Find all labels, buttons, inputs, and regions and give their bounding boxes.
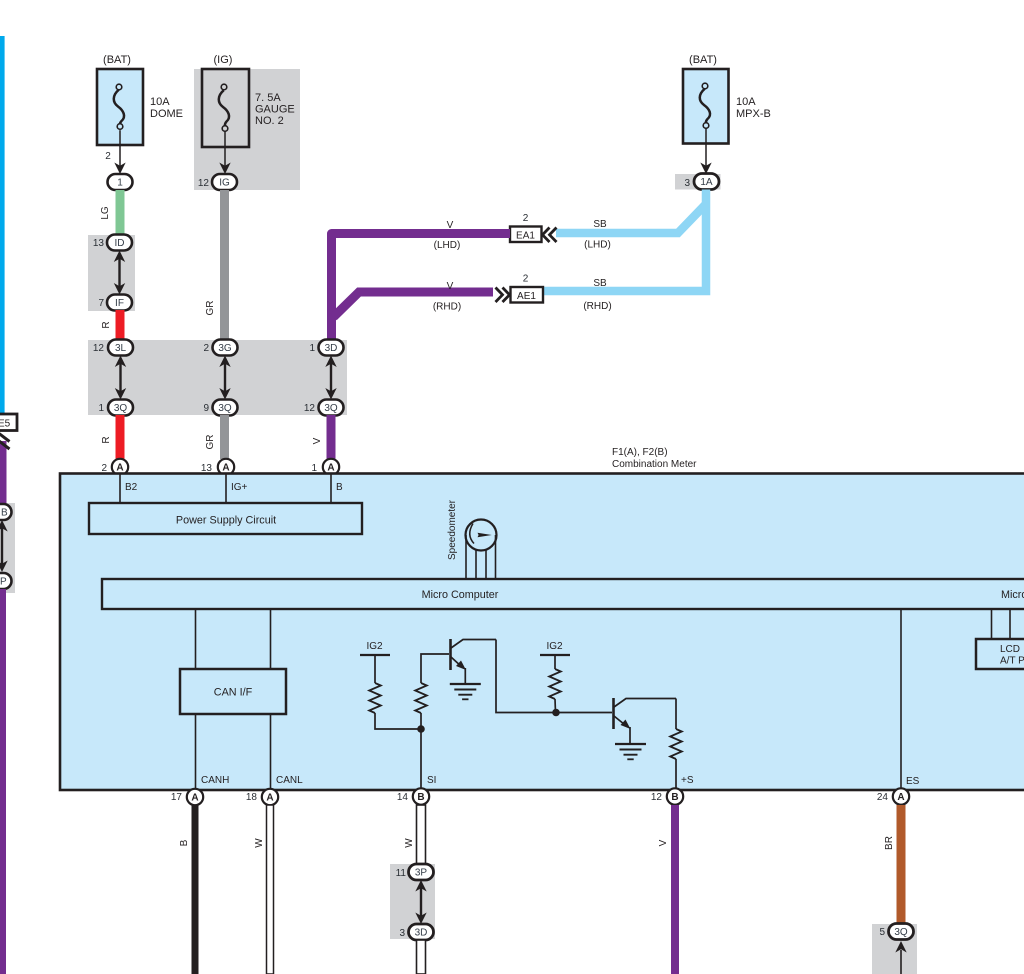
svg-text:3Q: 3Q <box>114 403 128 414</box>
resistor R1 <box>369 683 381 713</box>
wire R3 to junction <box>554 699 557 713</box>
svg-text:CANH: CANH <box>201 775 229 786</box>
wire to LCD box 1 <box>991 609 993 639</box>
wire SB vertical from 1A <box>543 190 706 292</box>
svg-text:A: A <box>327 463 334 474</box>
svg-text:3P: 3P <box>415 868 428 879</box>
svg-text:B: B <box>179 839 190 846</box>
ground (Q1 emitter) <box>450 684 481 699</box>
svg-text:3D: 3D <box>415 928 428 939</box>
svg-text:IF: IF <box>115 298 124 309</box>
svg-text:IG+: IG+ <box>231 482 248 493</box>
svg-text:(IG): (IG) <box>214 54 233 66</box>
svg-text:(LHD): (LHD) <box>434 240 461 251</box>
svg-text:BR: BR <box>884 836 895 850</box>
wire +S to pin <box>675 759 677 789</box>
svg-text:Micro Computer: Micro Computer <box>1001 589 1024 601</box>
wire Q2 collector down <box>675 699 677 730</box>
svg-text:B: B <box>671 792 678 803</box>
svg-text:IG2: IG2 <box>546 641 563 652</box>
svg-text:(BAT): (BAT) <box>103 54 131 66</box>
LCD A/T box <box>976 639 1024 669</box>
wire R (red, lower) <box>116 415 125 459</box>
svg-text:10A: 10A <box>150 96 170 108</box>
svg-text:7: 7 <box>98 298 104 309</box>
double arrow 3G-3Q <box>219 356 230 400</box>
fuse 10A DOME <box>97 54 183 145</box>
junction block ID/IF <box>88 235 135 311</box>
connector 1A <box>675 174 721 190</box>
svg-text:R: R <box>101 436 112 443</box>
svg-text:3D: 3D <box>325 343 338 354</box>
wire BR (brown, ES) <box>897 805 906 924</box>
svg-text:V: V <box>447 220 454 231</box>
svg-text:IG: IG <box>219 178 230 189</box>
arrow up to 3Q <box>895 941 906 953</box>
svg-text:GR: GR <box>205 435 216 450</box>
CAN I/F box <box>180 669 286 714</box>
wire W (white, SI lower) <box>417 940 426 974</box>
svg-text:CANL: CANL <box>276 775 303 786</box>
svg-text:(RHD): (RHD) <box>583 301 611 312</box>
svg-text:SB: SB <box>593 278 607 289</box>
fuse 10A MPX-B <box>683 54 771 144</box>
combination meter box <box>60 474 1024 791</box>
svg-text:F1(A), F2(B): F1(A), F2(B) <box>612 447 668 458</box>
svg-text:A/T P: A/T P <box>1000 656 1024 667</box>
svg-text:10A: 10A <box>736 96 756 108</box>
svg-text:(LHD): (LHD) <box>584 240 611 251</box>
IG2 supply 1 <box>360 641 390 683</box>
svg-text:13: 13 <box>93 238 105 249</box>
junction Q2 base <box>552 709 560 717</box>
svg-text:2: 2 <box>523 213 529 224</box>
power supply circuit box <box>89 503 362 534</box>
svg-text:Combination Meter: Combination Meter <box>612 459 697 470</box>
wire CANH inside <box>195 609 197 669</box>
svg-text:2: 2 <box>523 274 529 285</box>
resistor R3 <box>549 669 561 699</box>
wire W (white, SI upper) <box>417 805 426 864</box>
svg-text:B: B <box>1 508 8 519</box>
wire SI to pin <box>420 729 422 789</box>
svg-text:1: 1 <box>117 178 123 189</box>
arrow to connector IG <box>224 132 226 167</box>
svg-text:EA1: EA1 <box>516 231 535 242</box>
svg-text:LCD: LCD <box>1000 644 1020 655</box>
double arrow (left edge) <box>0 520 8 572</box>
fuse 7.5A GAUGE NO.2 block <box>194 69 300 190</box>
wire R2 bottom <box>420 713 422 729</box>
wire GR (gray, upper) <box>220 190 229 341</box>
wire B (black) <box>192 805 199 974</box>
junction block 3Q (bottom) <box>872 924 917 974</box>
svg-text:3Q: 3Q <box>894 927 908 938</box>
svg-text:W: W <box>404 838 415 848</box>
resistor R4 <box>670 729 682 759</box>
svg-text:3: 3 <box>684 178 690 189</box>
svg-text:MPX-B: MPX-B <box>736 108 771 120</box>
double arrow 3D-3Q <box>325 356 336 400</box>
svg-text:(RHD): (RHD) <box>433 302 461 313</box>
resistor R2 <box>415 683 427 713</box>
svg-text:B: B <box>417 792 424 803</box>
svg-text:5: 5 <box>879 927 885 938</box>
ground (Q2 emitter) <box>615 744 646 759</box>
svg-text:1: 1 <box>98 403 104 414</box>
wire R2 top to base <box>421 654 449 683</box>
svg-text:A: A <box>116 463 123 474</box>
pin stub IG+ <box>225 474 227 503</box>
svg-text:3Q: 3Q <box>324 403 338 414</box>
double arrow 3P-3D <box>415 880 426 924</box>
junction block 3P/3D <box>390 864 435 939</box>
svg-text:P: P <box>0 577 7 588</box>
wire R1 to junction <box>375 713 421 729</box>
svg-text:A: A <box>222 463 229 474</box>
svg-text:W: W <box>254 838 265 848</box>
wire R (red, upper) <box>116 310 125 341</box>
svg-text:A: A <box>897 792 904 803</box>
svg-text:NO. 2: NO. 2 <box>255 115 284 127</box>
svg-text:1A: 1A <box>700 177 713 188</box>
junction band 3L/3G/3D to 3Q <box>88 340 347 415</box>
wire CANH lower <box>195 714 197 789</box>
svg-text:9: 9 <box>203 403 209 414</box>
wire to LCD box 2 <box>1009 609 1011 639</box>
svg-text:1: 1 <box>309 343 315 354</box>
wire: violet (left edge, upper) <box>0 441 7 504</box>
svg-text:V: V <box>447 281 454 292</box>
svg-text:3Q: 3Q <box>218 403 232 414</box>
wire V (violet, +S) <box>671 805 679 974</box>
svg-text:3G: 3G <box>218 343 232 354</box>
svg-text:GAUGE: GAUGE <box>255 104 295 116</box>
wire LG (green) <box>116 190 125 236</box>
junction SI <box>417 725 425 733</box>
speedometer <box>447 499 497 579</box>
micro computer bar <box>102 579 1024 609</box>
svg-text:3: 3 <box>399 928 405 939</box>
svg-text:24: 24 <box>877 792 889 803</box>
svg-text:12: 12 <box>198 178 210 189</box>
connector 3P (left edge, cut) <box>0 573 12 589</box>
transistor Q1 <box>451 639 497 684</box>
connector 1 <box>108 174 133 190</box>
svg-text:12: 12 <box>93 343 105 354</box>
wire: cyan MPX bus (left edge) <box>0 36 5 413</box>
wire: violet (left edge, lower) <box>0 589 6 974</box>
wire V to EA1 (LHD) <box>332 234 511 341</box>
transistor Q2 <box>614 698 677 744</box>
svg-text:V: V <box>658 839 669 846</box>
svg-text:V: V <box>312 437 323 444</box>
svg-text:DOME: DOME <box>150 108 183 120</box>
svg-text:2: 2 <box>203 343 209 354</box>
svg-text:+S: +S <box>681 775 694 786</box>
arrow to connector 1A <box>705 129 707 167</box>
svg-text:B: B <box>336 482 343 493</box>
wire CANL inside <box>270 609 272 669</box>
svg-text:SI: SI <box>427 775 436 786</box>
svg-text:SB: SB <box>593 219 607 230</box>
IG2 supply 2 <box>540 641 570 669</box>
svg-text:IG2: IG2 <box>366 641 383 652</box>
pin stub B <box>330 474 332 503</box>
svg-text:Micro Computer: Micro Computer <box>422 589 499 601</box>
wire SB branch to EA1 <box>556 205 705 233</box>
svg-text:B2: B2 <box>125 482 138 493</box>
svg-text:R: R <box>101 321 112 328</box>
svg-text:12: 12 <box>651 792 663 803</box>
svg-text:Speedometer: Speedometer <box>447 499 458 560</box>
connector 3B (left edge, cut) <box>0 504 12 520</box>
svg-text:3L: 3L <box>115 343 127 354</box>
pin stub B2 <box>119 474 121 503</box>
double arrow 3L-3Q <box>115 356 126 400</box>
svg-text:2: 2 <box>105 151 111 162</box>
svg-text:E5: E5 <box>0 419 11 430</box>
svg-text:(BAT): (BAT) <box>689 54 717 66</box>
svg-text:17: 17 <box>171 792 183 803</box>
svg-text:ID: ID <box>115 238 125 249</box>
wire V (violet, to pin B) <box>327 415 336 459</box>
svg-text:GR: GR <box>205 301 216 316</box>
svg-text:18: 18 <box>246 792 258 803</box>
svg-text:ES: ES <box>906 776 920 787</box>
svg-text:CAN I/F: CAN I/F <box>214 687 253 699</box>
svg-text:11: 11 <box>396 868 407 879</box>
wire Q1 collector to Q2 base <box>496 640 612 713</box>
double arrow ID-IF <box>114 251 125 295</box>
svg-text:AE1: AE1 <box>517 291 536 302</box>
wire CANL lower <box>270 714 272 789</box>
wire ES inside <box>900 609 902 789</box>
svg-text:LG: LG <box>100 206 111 220</box>
wire W (white, CANL) <box>267 805 274 974</box>
svg-text:A: A <box>266 793 273 804</box>
svg-text:12: 12 <box>304 403 316 414</box>
junction block (left edge) <box>0 503 15 593</box>
svg-text:14: 14 <box>397 792 409 803</box>
svg-text:Power Supply Circuit: Power Supply Circuit <box>176 515 276 527</box>
connector E5 <box>0 414 17 449</box>
svg-text:7. 5A: 7. 5A <box>255 92 281 104</box>
wire V to AE1 (RHD) <box>334 292 494 317</box>
wire GR (gray, lower) <box>220 415 229 459</box>
svg-text:A: A <box>191 793 198 804</box>
